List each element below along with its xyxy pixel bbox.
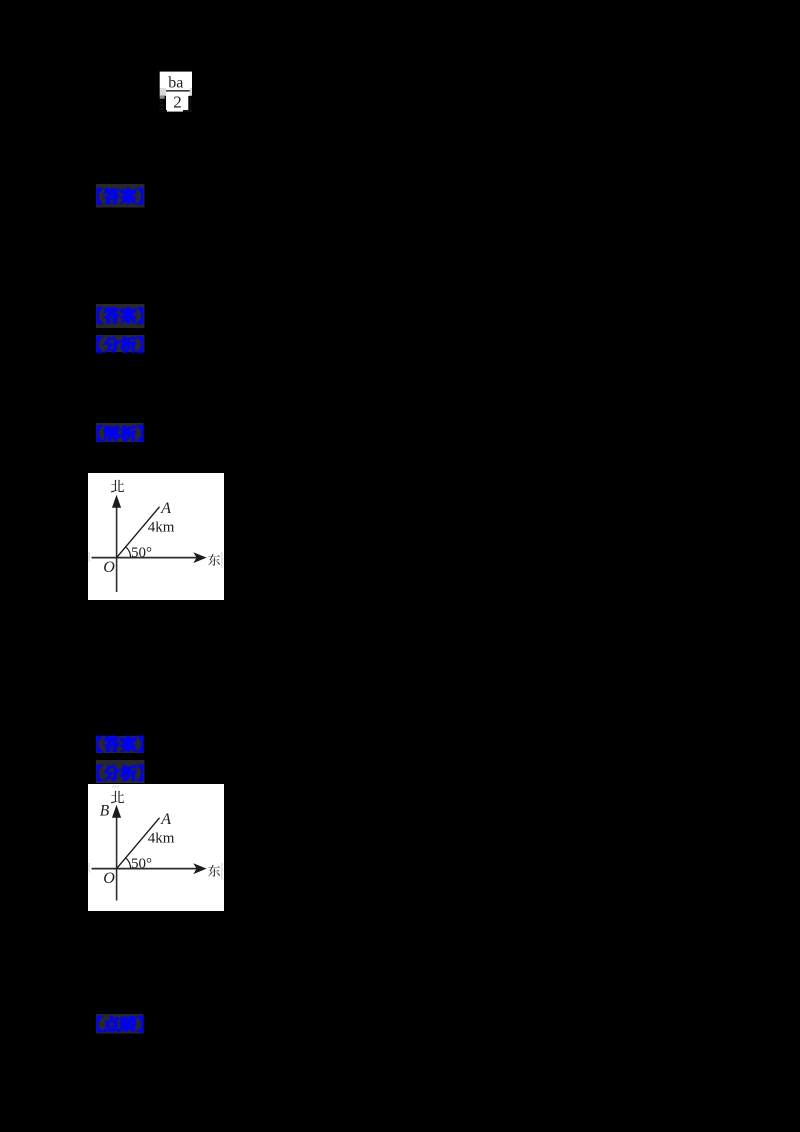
svg-text:50°: 50° xyxy=(131,856,152,872)
fraction image ba/2 xyxy=(158,70,195,114)
answer label 3: 【分析】 xyxy=(90,329,151,358)
svg-text:2: 2 xyxy=(173,93,182,112)
answer label 5: 【答案】 xyxy=(90,730,150,759)
east axis line with arrow xyxy=(92,557,198,559)
svg-text:ba: ba xyxy=(168,75,183,92)
east axis line with arrow xyxy=(92,868,198,870)
north axis line with arrow xyxy=(116,506,118,592)
svg-text:O: O xyxy=(103,870,115,887)
svg-text:50°: 50° xyxy=(131,545,152,561)
answer label 4: 【解析】 xyxy=(90,417,150,448)
ray OA at 50 degrees xyxy=(117,507,160,558)
east label 东 xyxy=(208,865,220,877)
bearing diagram 2 xyxy=(88,784,224,911)
answer label 7: 【点睛】 xyxy=(90,1008,150,1040)
svg-text:A: A xyxy=(160,500,171,517)
edge artifacts xyxy=(89,552,90,562)
svg-text:4km: 4km xyxy=(148,520,175,536)
svg-text:B: B xyxy=(100,803,110,820)
answer label 2: 【答案】 xyxy=(90,298,151,334)
angle arc xyxy=(126,858,131,869)
north axis line with arrow xyxy=(116,816,118,901)
answer label 1: 【答案】 xyxy=(90,178,151,214)
east label 东 xyxy=(208,554,220,566)
bearing diagram 1 xyxy=(88,473,224,600)
edge artifacts xyxy=(89,863,90,873)
north label 北 xyxy=(111,791,124,804)
svg-text:A: A xyxy=(160,811,171,828)
answer label 6: 【分析】 xyxy=(90,754,151,789)
angle arc xyxy=(126,547,131,558)
white figure background xyxy=(88,473,224,600)
glyph definitions xyxy=(0,0,1,1)
north label 北 xyxy=(111,480,124,493)
svg-text:4km: 4km xyxy=(148,831,175,847)
white figure background xyxy=(88,784,224,911)
ray OA at 50 degrees xyxy=(117,818,160,869)
svg-text:O: O xyxy=(103,559,115,576)
